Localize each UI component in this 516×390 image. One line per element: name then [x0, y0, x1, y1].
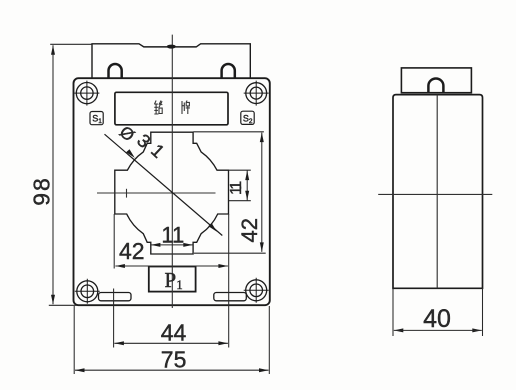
svg-text:98: 98 [29, 176, 55, 206]
svg-text:44: 44 [161, 320, 187, 346]
svg-text:75: 75 [161, 347, 187, 373]
svg-text:42: 42 [237, 218, 262, 242]
svg-text:42: 42 [119, 238, 145, 264]
svg-text:11: 11 [161, 223, 184, 248]
svg-text:40: 40 [423, 305, 451, 333]
